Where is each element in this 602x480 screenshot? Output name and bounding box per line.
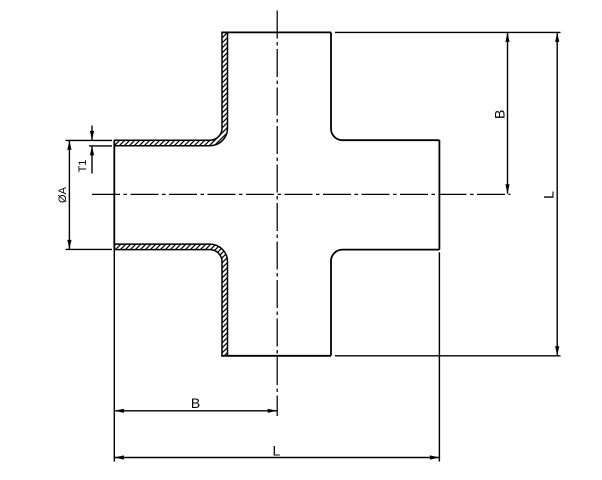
dimension T1: upper dimension line with arrow down (91, 126, 93, 141)
dimension L bottom: arrow left (114, 455, 124, 459)
extension line from top edge to right dimensions (335, 31, 561, 33)
svg-text:T1: T1 (77, 160, 89, 173)
dimension T1: lower dimension line with arrow up (91, 146, 93, 174)
vertical centerline (276, 11, 278, 417)
dimension B bottom: dimension line (114, 410, 277, 412)
dimension OA: extension line bottom (66, 248, 113, 250)
dimension OA: extension line top (66, 139, 113, 141)
outline right half: top arm right edge, right arm top edge (331, 32, 439, 140)
dimension L right: arrow up (555, 32, 559, 42)
svg-text:ØA: ØA (57, 186, 69, 203)
dimension B bottom: arrow right (268, 409, 278, 413)
horizontal centerline (92, 193, 511, 195)
dimension OA: arrow up (67, 140, 71, 150)
svg-text:B: B (491, 110, 507, 119)
svg-text:B: B (191, 395, 200, 411)
wall section lower-left (hatched band: left arm bottom wall + bottom arm left wall) (114, 244, 227, 356)
dimension B right: dimension line (507, 32, 509, 193)
bottom opening edge (221, 355, 331, 357)
outline right half: right arm bottom edge, bottom arm right edge (331, 250, 439, 356)
top opening edge (221, 31, 331, 33)
svg-text:L: L (273, 443, 281, 459)
left pipe end edge (113, 140, 115, 249)
dimension OA: arrow down (67, 240, 71, 250)
dimension OA: dimension line (68, 140, 70, 249)
dimension L right: dimension line (556, 32, 558, 355)
extension line from left pipe end down to bottom dimensions (113, 250, 115, 462)
dimension T1: extension line inner (89, 145, 112, 147)
right pipe end edge (438, 140, 440, 249)
svg-text:L: L (541, 191, 557, 199)
dimension B right: arrow up (505, 32, 509, 42)
extension line from right pipe end down to bottom L dimension (438, 252, 440, 461)
dimension L right: arrow down (555, 346, 559, 356)
dimension L bottom: arrow right (430, 455, 440, 459)
extension line from bottom edge to right dimensions (335, 355, 561, 357)
dimension B right: arrow down (505, 184, 509, 194)
wall section upper-left (hatched band: top arm left wall + left arm top wall) (114, 32, 227, 145)
dimension L bottom: dimension line (114, 457, 439, 459)
dimension B bottom: arrow left (114, 409, 124, 413)
